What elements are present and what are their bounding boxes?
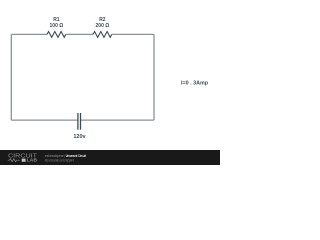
svg-text:LAB: LAB	[27, 158, 37, 163]
svg-text:mahhinadajoinar | Unnamed Circ: mahhinadajoinar | Unnamed Circuit	[45, 154, 87, 158]
svg-text:http://circuitlab.com/c/9p5pkF: http://circuitlab.com/c/9p5pkF3	[45, 159, 74, 163]
svg-text:200 Ω: 200 Ω	[96, 23, 110, 29]
svg-text:I=0 . 3Amp: I=0 . 3Amp	[181, 81, 208, 87]
svg-text:100 Ω: 100 Ω	[50, 23, 64, 29]
svg-text:120v: 120v	[73, 134, 86, 140]
